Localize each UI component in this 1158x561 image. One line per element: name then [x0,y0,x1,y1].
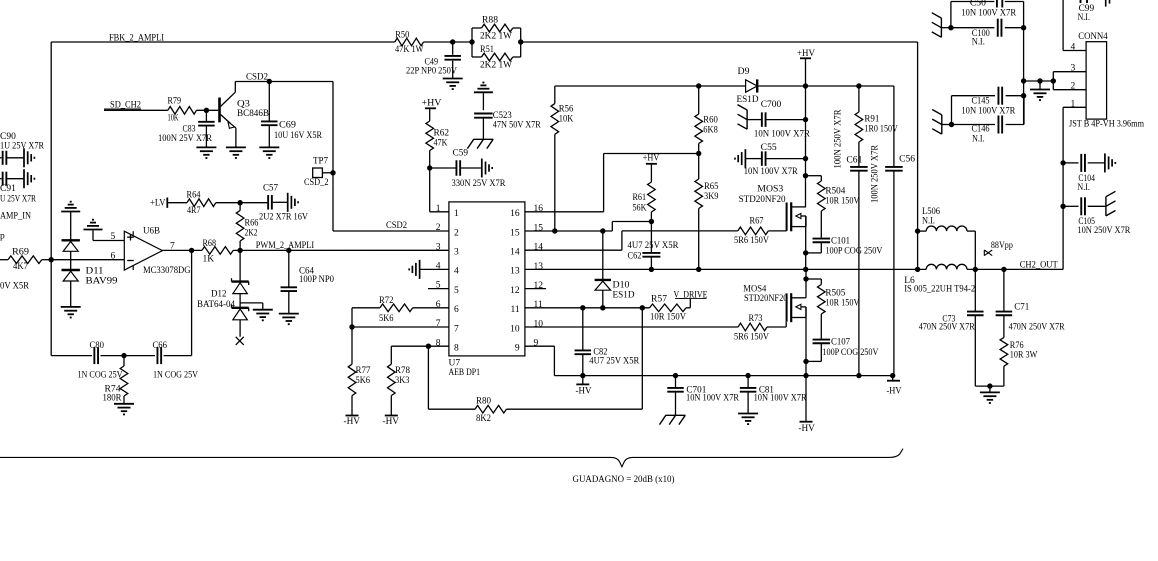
capacitor C64 [281,250,335,313]
svg-text:10K: 10K [559,115,574,125]
pin 10 numbers U7 [510,319,543,334]
chassis ground C145 C146 [932,110,951,135]
wire pin8 [391,345,449,347]
svg-text:10N 100V X7R: 10N 100V X7R [744,167,799,177]
wire C66 to output vertical [164,355,192,357]
svg-text:10R 150V: 10R 150V [825,299,859,309]
svg-text:R80: R80 [476,397,491,407]
svg-text:100N 250V X7R: 100N 250V X7R [871,144,881,203]
svg-text:C66: C66 [153,341,168,351]
svg-text:2U2 X7R 16V: 2U2 X7R 16V [259,213,308,223]
ground D12 [253,310,273,321]
capacitor C100 [951,19,1024,48]
capacitor C66 [153,341,199,381]
wire MOS3 source riser [805,216,807,269]
svg-text:JST B 4P-VH 3.96mm: JST B 4P-VH 3.96mm [1069,120,1145,130]
svg-text:CSD2: CSD2 [386,221,407,231]
svg-text:3: 3 [1071,63,1076,73]
wire R80 right riser [641,308,643,409]
wire R67 to MOS3 gate [768,230,786,232]
svg-text:-HV: -HV [383,417,400,427]
connector CONN4 box [1086,42,1107,119]
diode D9 [737,67,759,105]
svg-text:R68: R68 [203,239,217,249]
net label CSD2 pin2 [386,221,407,231]
capacitor C80 [78,341,123,381]
svg-text:-HV: -HV [344,417,361,427]
chassis ground C105 [1106,191,1116,216]
capacitor C59 [430,149,506,190]
wire op-amp output [162,249,202,251]
capacitor C101 [806,237,883,257]
svg-text:C90: C90 [0,132,16,142]
wire MOS3 gate net [622,230,738,232]
svg-text:TP7: TP7 [313,157,328,167]
svg-text:10N 250V X7R: 10N 250V X7R [1077,226,1131,236]
pin 14 numbers U7 [510,243,543,258]
svg-text:1K: 1K [203,255,215,265]
svg-text:R504: R504 [825,187,845,197]
capacitor C107 [806,338,879,362]
svg-text:R91: R91 [864,115,879,125]
svg-text:5: 5 [454,286,459,296]
wire PWM to D12 [239,250,241,281]
svg-text:1: 1 [454,209,459,219]
junction C69 top [267,79,272,84]
svg-text:11: 11 [534,300,543,310]
net label V_DRIVE [674,290,708,308]
wire input node to op-amp [51,259,124,261]
svg-text:R78: R78 [395,366,410,376]
junction gnd rail right [1051,78,1056,83]
svg-text:+HV: +HV [422,99,442,109]
ground C57 (rotated) [288,193,298,212]
svg-text:ES1D: ES1D [737,95,759,105]
label CSD_2 [304,178,329,188]
pin number 5 [111,232,116,242]
svg-text:R79: R79 [168,97,182,107]
svg-text:0V X5R: 0V X5R [0,282,30,292]
label D11 BAV99 [86,267,118,287]
resistor R76 [1000,338,1037,387]
net label CH2_OUT [1020,261,1058,271]
net label FBK_2_AMPLI [109,34,164,44]
svg-text:47K: 47K [434,139,448,149]
wire pin16 [525,154,604,212]
junction C100 left [948,25,953,30]
svg-text:100P NP0: 100P NP0 [299,275,334,285]
wire pin15 [525,222,652,232]
svg-text:470N 250V X7R: 470N 250V X7R [919,323,976,333]
svg-text:3: 3 [454,248,459,258]
pin 9 numbers U7 [515,339,539,354]
pin number 7 [170,241,175,251]
wire MOS4 source riser [805,307,807,376]
label C91 [0,184,37,205]
resistor R67 [734,217,769,247]
wire R73 to MOS4 gate [767,322,786,327]
svg-text:R505: R505 [825,289,845,299]
resistor R56 [551,86,574,231]
svg-text:5K6: 5K6 [379,314,394,324]
svg-text:5K6: 5K6 [356,376,371,386]
label 0V X5R (clipped) [0,282,30,292]
capacitor C82 [575,308,640,376]
value C61 (vertical) [834,109,844,169]
capacitor C146 [952,96,1025,145]
wire R50 to R88 block [424,41,473,43]
chassis ground C523 [467,139,493,148]
svg-text:13: 13 [534,262,544,272]
svg-text:C57: C57 [263,184,278,194]
svg-text:U7: U7 [449,359,461,369]
wire MOS3 drain riser [805,86,807,207]
junction C83 top [204,108,209,113]
svg-text:D12: D12 [211,290,227,300]
svg-text:R67: R67 [750,217,764,227]
svg-text:CSD_2: CSD_2 [304,178,329,188]
svg-text:C146: C146 [972,125,990,135]
svg-text:180R: 180R [103,394,123,404]
resistor R74 [103,356,128,404]
junction +HV node [803,83,808,88]
power -HV below MOS4 [798,376,815,434]
capacitor C105 [1063,197,1131,236]
svg-text:-HV: -HV [887,386,902,396]
svg-text:MOS3: MOS3 [757,185,783,195]
pin 8 numbers U7 [436,338,459,353]
capacitor C90 (clipped) [0,151,24,165]
wire pin13 output rail [525,268,926,270]
junction R74 top [121,353,126,358]
svg-text:10N 100V X7R: 10N 100V X7R [961,8,1017,18]
svg-text:2K2 1W: 2K2 1W [480,61,512,71]
svg-text:3: 3 [436,242,441,252]
svg-text:C107: C107 [831,338,850,348]
resistor R72 [352,296,449,324]
test point TP7 [313,168,333,178]
junction C64 top [286,248,291,253]
junction C100 right [1021,25,1026,30]
chassis ground C701 [660,415,686,424]
label Q3 BC846B [237,100,269,120]
ground output filter [980,386,1000,403]
wire Q3 collector riser [234,82,236,93]
wire D12 mid tap [240,303,263,310]
svg-text:N.I.: N.I. [972,135,985,145]
resistor R78 [388,346,411,415]
svg-text:4R7: 4R7 [187,206,201,216]
resistor R61 [633,164,656,222]
label JST B 4P-VH 3.96mm [1069,120,1145,130]
svg-text:STD20NF20: STD20NF20 [739,195,786,205]
ground pin4 (rotated) [409,260,419,279]
diode D11 lower [62,270,80,281]
pin 15 numbers U7 [510,223,543,238]
svg-text:+LV: +LV [150,198,166,208]
svg-text:U6B: U6B [143,227,160,237]
wire +HV top rail [555,85,746,87]
wire gnd rail [1024,80,1054,82]
svg-text:4K7: 4K7 [13,262,28,272]
wire pin9 [525,346,555,375]
pin 12 numbers U7 [510,281,543,296]
svg-text:BAT64-04: BAT64-04 [197,300,235,310]
junction C82 top [580,305,585,310]
wire C80 to C66 [101,355,156,357]
svg-text:R66: R66 [245,219,259,229]
svg-text:4U7 25V X5R: 4U7 25V X5R [589,357,640,367]
junction R61 bottom [649,219,654,224]
resistor R73 [734,314,769,343]
svg-text:100P COG 250V: 100P COG 250V [825,247,882,257]
svg-text:R69: R69 [12,248,29,258]
stub pin5 [428,288,449,290]
svg-text:R76: R76 [1010,341,1024,351]
ground above D11 (inverted) [61,202,80,240]
resistor R51 [472,28,521,71]
junction C104 left [1060,160,1065,165]
junction PWM node [237,248,242,253]
label C90 [0,132,45,152]
svg-text:5: 5 [111,232,116,242]
junction D10 bottom [600,305,605,310]
svg-text:11: 11 [510,305,519,315]
svg-text:D10: D10 [613,281,630,291]
capacitor C57 [259,184,308,223]
probe 88Vpp [984,241,1013,256]
wire D11 to ground [70,281,72,307]
junction R65 bottom [696,267,701,272]
IC U7 box [449,202,525,356]
svg-text:R65: R65 [704,182,719,192]
svg-text:N.I.: N.I. [922,217,935,227]
label p (clipped) [0,232,5,242]
pin 4 numbers U7 [436,262,459,277]
wire D9 to +HV node [757,85,894,87]
transistor MOS3 [787,202,806,231]
diode D11 upper [62,240,80,251]
svg-text:PWM_2_AMPLI: PWM_2_AMPLI [256,241,315,251]
svg-text:100N 250V X7R: 100N 250V X7R [834,109,844,169]
svg-text:C59: C59 [453,149,469,159]
capacitor C145 [952,87,1024,125]
svg-text:3K9: 3K9 [704,192,719,202]
ground CONN4 [1030,81,1050,100]
junction gnd rail mid [1037,78,1042,83]
resistor R91 [855,86,898,166]
resistor R65 [695,154,719,270]
svg-text:FBK_2_AMPLI: FBK_2_AMPLI [109,34,164,44]
junction C81 top [745,373,750,378]
svg-text:C80: C80 [90,341,105,351]
resistor R80 [428,397,642,425]
power +HV above R61 [643,154,660,164]
wire SD_CH2 [104,109,168,111]
wire Q3 emitter riser [235,128,237,147]
svg-text:4: 4 [1071,42,1076,52]
junction MOS3 source rail [803,267,808,272]
svg-text:R61: R61 [633,193,647,203]
junction L506 left [915,228,920,233]
svg-text:R72: R72 [379,296,394,306]
svg-text:D9: D9 [738,67,750,77]
pin 1 CONN4 [1063,99,1086,109]
wire CSD2 vertical [332,82,334,232]
svg-text:R60: R60 [703,116,718,126]
pin 11 numbers U7 [510,300,542,315]
pin 4 CONN4 [1063,42,1086,52]
junction L6 right [973,267,978,272]
wire pin1 [430,168,449,212]
svg-text:10R 150V: 10R 150V [650,313,686,323]
ground D11 [61,307,81,318]
net label PWM_2_AMPLI [256,241,315,251]
svg-text:2: 2 [1071,81,1076,91]
capacitor C62 [628,222,680,270]
junction R504 tap [803,173,808,178]
ground C69 [259,147,279,158]
wire output to feedback caps [191,250,193,355]
resistor R68 [202,239,233,265]
svg-text:1R0 150V: 1R0 150V [864,125,898,135]
svg-text:6K8: 6K8 [703,126,718,136]
label TP7 [313,157,328,167]
svg-text:2K2: 2K2 [245,229,258,239]
capacitor C104 [1063,154,1105,193]
junction C105 left [1060,204,1065,209]
svg-text:6: 6 [111,252,116,262]
svg-text:AEB DP1: AEB DP1 [449,368,481,378]
svg-text:C69: C69 [279,121,296,131]
junction C700 right [803,117,808,122]
label U7 [449,359,481,379]
resistor R57 [650,295,687,323]
ground R74 [114,404,134,415]
junction C55 right [803,156,808,161]
junction pin8 [426,344,431,349]
svg-text:C83: C83 [183,125,196,135]
resistor R77 [348,364,371,415]
junction C101 bottom [803,250,808,255]
junction pin7 [349,324,354,329]
resistor R62 [426,108,449,168]
svg-text:9: 9 [534,339,539,349]
svg-text:10U 16V X5R: 10U 16V X5R [274,131,323,141]
junction pin15 D10 [600,228,605,233]
svg-text:C700: C700 [761,100,782,110]
svg-text:8: 8 [454,344,459,354]
svg-text:10N 100V X7R: 10N 100V X7R [754,394,808,404]
wire -HV rail [554,375,892,377]
ground op-amp pin5 (inverted) [84,220,103,241]
power -HV below C56 [887,376,902,397]
capacitor C83 [158,110,215,147]
wire VCC to pin16 [604,153,699,155]
label D12 BAT64-04 [197,290,235,311]
wire D12 mid [239,294,241,308]
svg-text:13: 13 [510,267,520,277]
pin 2 CONN4 [1053,81,1086,91]
junction MOS4 source rail [803,373,808,378]
pin 5 numbers U7 [436,281,459,296]
svg-text:100P COG 250V: 100P COG 250V [822,348,878,358]
svg-text:5R6 150V: 5R6 150V [734,236,769,246]
svg-text:R88: R88 [482,16,498,26]
ground C49 [443,79,463,90]
svg-text:2: 2 [454,228,459,238]
svg-text:47N 50V X7R: 47N 50V X7R [493,121,542,131]
capacitor C69 [261,82,323,148]
capacitor C99 (clipped) [1063,0,1109,51]
stub pin12 [525,288,546,290]
svg-text:10N 100V X7R: 10N 100V X7R [754,130,811,140]
junction C701 top [673,373,678,378]
power -HV R78 [383,416,400,428]
svg-text:-HV: -HV [576,387,592,397]
capacitor C61 [846,156,867,376]
junction R88 block right [518,39,523,44]
svg-text:15: 15 [534,223,544,233]
svg-text:C50: C50 [970,0,986,9]
ground C83 [196,147,216,158]
wire D11 mid [70,251,72,269]
junction input node [49,257,54,262]
resistor R60 [695,86,718,154]
label MOS4 [743,285,787,305]
wire pin7 [352,326,449,328]
wire C56 riser [893,86,895,166]
wire R68 to pin3 [233,249,449,251]
wire R64 to C57 [216,202,267,204]
power +HV above R62 [422,99,442,109]
power -HV R77 [344,416,361,428]
svg-text:12: 12 [510,286,520,296]
ground C81 [738,414,758,425]
junction gnd rail left [1021,78,1026,83]
svg-text:MOS4: MOS4 [743,285,766,295]
capacitor C700 [738,100,811,140]
ground C64 [279,314,299,325]
junction C107 bottom [803,359,808,364]
wire pin2 CSD2 [333,230,449,232]
pin 3 numbers U7 [436,242,459,257]
ground C91 [24,169,34,188]
net label CSD2 top [246,73,268,83]
svg-text:GUADAGNO = 20dB (x10): GUADAGNO = 20dB (x10) [573,474,675,485]
svg-text:8K2: 8K2 [476,414,491,424]
diode D12 lower (schottky) [232,304,249,319]
svg-text:330N 25V X7R: 330N 25V X7R [452,179,507,189]
label MOS3 [739,185,786,206]
resistor R88 [472,16,521,58]
svg-text:AMP_IN: AMP_IN [0,212,31,222]
junction pin15 R56 [552,228,557,233]
capacitor C523 [474,111,541,139]
diode D12 upper (schottky) [232,278,249,293]
svg-text:L506: L506 [922,207,940,217]
svg-text:R57: R57 [651,295,667,305]
svg-text:7: 7 [454,324,459,334]
svg-text:100N 25V X7R: 100N 25V X7R [158,134,213,144]
svg-text:R77: R77 [356,366,371,376]
svg-text:N.I.: N.I. [1077,183,1090,193]
svg-text:N.I.: N.I. [1078,13,1091,23]
capacitor C49 [406,42,461,79]
junction R88 block left [469,39,474,44]
resistor R50 [395,31,424,56]
wire CONN4 pin1 to CH2_OUT [1062,107,1064,269]
